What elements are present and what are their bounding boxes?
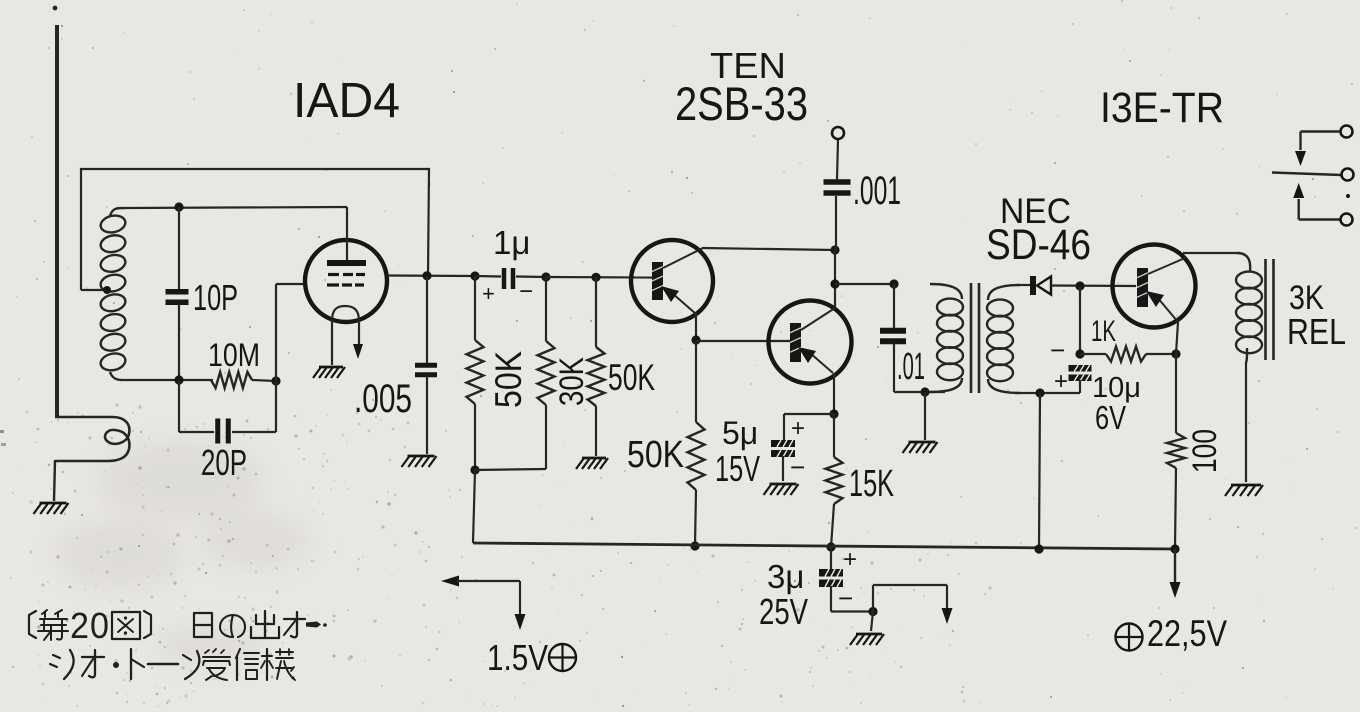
svg-text:100: 100	[1186, 429, 1224, 473]
svg-text:25V: 25V	[759, 591, 808, 632]
svg-text:15K: 15K	[849, 463, 894, 505]
svg-text:2SB-33: 2SB-33	[675, 77, 808, 130]
svg-text:50K: 50K	[627, 434, 684, 476]
svg-text:5μ: 5μ	[722, 415, 758, 451]
svg-text:−: −	[790, 452, 805, 482]
svg-text:3μ: 3μ	[767, 558, 804, 595]
svg-text:−: −	[519, 278, 533, 305]
svg-text:15V: 15V	[715, 448, 760, 489]
svg-text:+: +	[482, 281, 495, 306]
svg-text:+: +	[1054, 368, 1068, 395]
svg-text:.005: .005	[354, 377, 412, 421]
svg-text:10M: 10M	[208, 337, 260, 373]
svg-text:0: 0	[90, 605, 109, 646]
svg-text:1.5V: 1.5V	[487, 637, 548, 678]
svg-text:50K: 50K	[608, 357, 655, 398]
svg-text:22,5V: 22,5V	[1147, 613, 1227, 654]
svg-text:.001: .001	[853, 169, 901, 213]
svg-text:.01: .01	[897, 346, 925, 388]
svg-text:I3E-TR: I3E-TR	[1100, 84, 1224, 132]
svg-text:REL: REL	[1287, 311, 1346, 352]
svg-text:20P: 20P	[201, 442, 247, 483]
svg-text:1μ: 1μ	[493, 224, 530, 261]
svg-text:10P: 10P	[193, 277, 238, 318]
svg-text:−: −	[838, 583, 853, 613]
svg-text:−: −	[1050, 335, 1065, 365]
svg-text:IAD4: IAD4	[293, 74, 400, 128]
svg-text:1K: 1K	[1091, 315, 1116, 348]
svg-text:30K: 30K	[553, 357, 591, 406]
svg-text:SD-46: SD-46	[986, 222, 1091, 269]
svg-text:6V: 6V	[1095, 399, 1126, 436]
svg-text:+: +	[843, 546, 857, 573]
svg-text:50K: 50K	[488, 351, 529, 408]
svg-text:2: 2	[70, 605, 89, 646]
svg-text:+: +	[791, 415, 805, 442]
